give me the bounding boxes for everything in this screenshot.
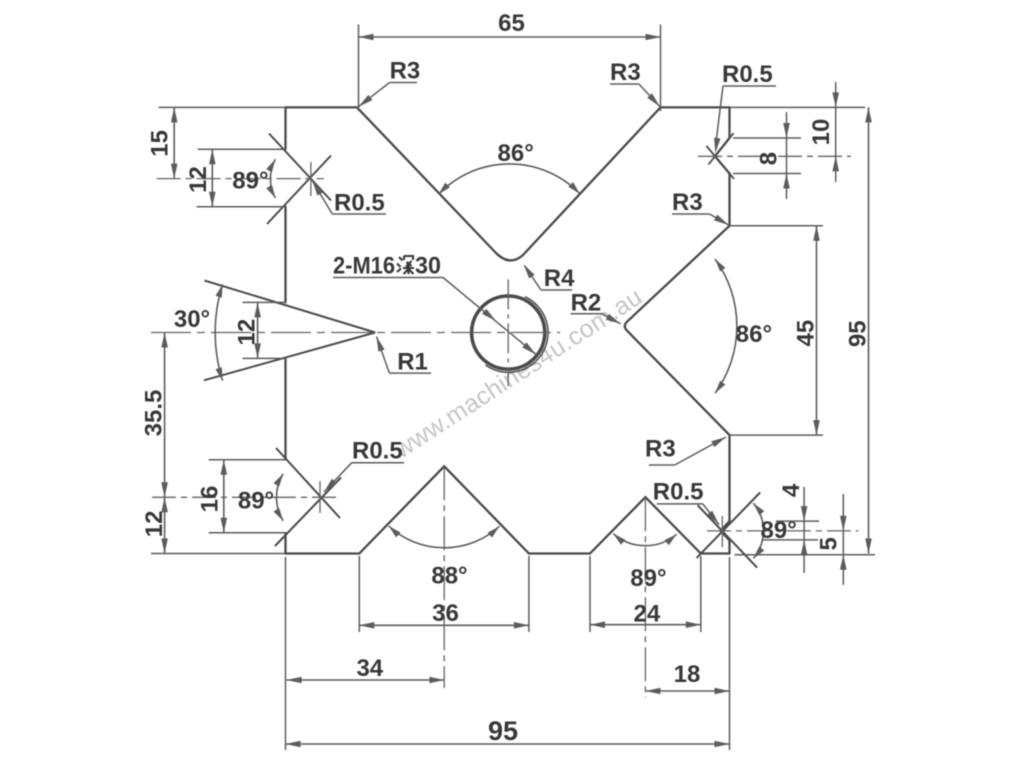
dim 10: dimension line/arrows (outside): [835, 82, 837, 182]
dim 65: extension lines: [358, 25, 360, 112]
dim 24: extension lines: [589, 556, 591, 632]
bottom edge extension left: [151, 553, 286, 555]
top-left 89 notch flank lines (overshooting): [269, 134, 331, 201]
svg-text:88°: 88°: [431, 563, 467, 590]
centerline: top-right notch horizontal: [698, 155, 851, 157]
dim 8: extension lines: [733, 137, 801, 139]
svg-text:R3: R3: [610, 59, 641, 86]
centerline: corner notch horizontal: [707, 530, 858, 532]
svg-text:86°: 86°: [498, 140, 534, 167]
dim 8: dimension line/arrows (outside): [786, 112, 788, 199]
bottom V notch 1 (36mm) flanks: [359, 466, 529, 553]
top edge right segment: [661, 106, 730, 108]
svg-text:R4: R4: [544, 265, 575, 292]
svg-text:36: 36: [432, 600, 459, 627]
angle 86 top V: arc: [439, 164, 580, 194]
svg-text:2-M16: 2-M16: [333, 253, 395, 280]
leader R0.5 top-left: [313, 181, 333, 214]
bottom edge right segment: [701, 552, 730, 554]
svg-text:R3: R3: [390, 58, 421, 85]
dim 16: dimension line/arrows: [223, 460, 225, 533]
dim 5: dimension line/arrows (outside): [842, 494, 844, 585]
svg-text:12: 12: [185, 166, 212, 193]
dim 15: extension line (top edge extended): [159, 106, 286, 108]
svg-text:R1: R1: [397, 349, 428, 376]
bottom-left 89 notch flank lines (overshooting): [276, 448, 340, 518]
svg-text:15: 15: [147, 130, 174, 157]
svg-text:89°: 89°: [238, 488, 274, 515]
right V notch flanks with R2 vertex: [625, 226, 730, 435]
right edge bottom stub: [728, 541, 730, 554]
bottom edge middle segment: [529, 552, 590, 554]
svg-text:45: 45: [792, 320, 819, 347]
svg-text:95: 95: [844, 320, 871, 347]
dim 95 right: extension line (bottom edge ext): [735, 554, 876, 556]
M16 tapped hole: outer thread arc: [486, 297, 549, 373]
top V notch flanks with R4 fillet: [357, 107, 661, 260]
svg-text:89°: 89°: [232, 168, 268, 195]
leader R2 (right V fillet): [602, 314, 621, 324]
svg-text:12: 12: [233, 319, 260, 346]
bottom edge left segment: [286, 552, 360, 554]
centerline tick: top-left notch vertex: [310, 162, 312, 196]
top-right notch flanks: [715, 138, 730, 174]
svg-text:86°: 86°: [736, 321, 772, 348]
dim 15: dimension line/arrows: [173, 107, 175, 178]
svg-text:34: 34: [356, 655, 383, 682]
svg-text:89°: 89°: [630, 565, 666, 592]
right edge upper segment: [728, 107, 730, 138]
svg-text:24: 24: [634, 601, 661, 628]
hand-drawn CJK glyph "deep": [397, 256, 414, 274]
dim 12 (30 notch): dimension line/arrows: [257, 302, 259, 358]
svg-text:R0.5: R0.5: [352, 438, 403, 465]
centerline tick: corner notch vertex: [721, 516, 723, 547]
dim 36: extension lines: [358, 556, 360, 632]
dim 12 top-left: extension lines: [198, 148, 286, 150]
svg-text:30°: 30°: [174, 306, 210, 333]
svg-text:95: 95: [488, 716, 518, 746]
dim 65: dimension line and arrows: [359, 36, 661, 38]
angle 86 right V: arc: [715, 259, 737, 393]
leader R0.5 bottom-right: [703, 504, 719, 525]
angle 89 corner notch: arc: [753, 503, 763, 558]
leader R3 right-middle: [710, 214, 729, 225]
dim 18: dimension line/arrows: [645, 690, 729, 692]
svg-text:R3: R3: [672, 189, 703, 216]
dim 12 bottom-left: dimension line/arrows: [164, 497, 166, 553]
leader R4 (top V fillet): [525, 266, 542, 291]
dim 12 (30 notch): extension lines: [243, 301, 286, 303]
top edge left segment: [286, 106, 358, 108]
centerline: bottom-left notch horizontal: [152, 496, 338, 498]
left edge bottom segment: [284, 533, 286, 554]
svg-text:35.5: 35.5: [140, 390, 167, 437]
svg-text:8: 8: [756, 152, 783, 165]
dim 16: extension lines: [209, 459, 286, 461]
svg-text:18: 18: [674, 661, 701, 688]
top-right notch flank overshoot: [709, 133, 734, 164]
dim 4: dimension line/arrows (outside): [803, 487, 805, 573]
dim 95 bottom: dimension line/arrows: [286, 743, 730, 745]
dim 95 right: dimension line/arrows: [868, 107, 870, 553]
bottom-right corner notch flanks: [721, 521, 730, 540]
leader R1 (30 notch vertex): [377, 337, 390, 374]
svg-text:65: 65: [498, 10, 525, 37]
right edge lower segment: [728, 435, 730, 521]
label 2-M16: underline and leader: [333, 277, 443, 279]
dim 24: dimension line/arrows: [590, 624, 701, 626]
dim 35.5: dimension line/arrows: [164, 333, 166, 498]
dim 18: extension line (right edge ext down): [729, 557, 731, 750]
left edge top segment: [284, 107, 286, 149]
M16 tapped hole: inner circle: [472, 296, 545, 369]
svg-text:R0.5: R0.5: [653, 479, 704, 506]
angle 89 bottom notch2: arc: [613, 534, 676, 546]
centerline: hole / 30deg notch horizontal: [151, 332, 560, 334]
centerline: bottom notch2 vertical: [644, 497, 646, 698]
dim 34: dimension line/arrows: [287, 679, 445, 681]
dim 45: extension lines: [730, 225, 824, 227]
leader R3 lower-right: [675, 437, 726, 465]
svg-text:5: 5: [815, 537, 842, 550]
angle 88 bottom notch1: arc: [389, 526, 500, 548]
svg-text:R0.5: R0.5: [334, 190, 385, 217]
svg-text:R2: R2: [571, 290, 602, 317]
left edge middle-high segment: [284, 207, 286, 303]
dim 4: extension lines: [776, 520, 819, 522]
dim 34: extension line (left edge ext down): [285, 557, 287, 750]
leader R3 top-right: [639, 84, 660, 107]
centerline: hole vertical: [507, 279, 509, 386]
svg-text:R0.5: R0.5: [722, 61, 773, 88]
leader R0.5 top-right: [716, 86, 723, 140]
svg-text:R3: R3: [645, 436, 676, 463]
dim 12 top-left: dimension line/arrows: [211, 149, 213, 206]
bottom-right corner notch flank lines (overshooting): [698, 505, 758, 568]
bottom V notch 2 (24mm) flanks: [590, 497, 701, 553]
svg-text:30: 30: [415, 253, 441, 280]
dim 36: dimension line/arrows: [359, 624, 529, 626]
angle 30: arc: [215, 284, 222, 380]
svg-text:16: 16: [197, 486, 224, 513]
watermark www.machines4u.com.au: [388, 283, 647, 465]
left edge middle-low segment: [284, 358, 286, 459]
leader R3 top-left: [359, 83, 390, 107]
svg-text:10: 10: [808, 119, 835, 146]
leader R0.5 bottom-left: [324, 463, 352, 492]
svg-text:12: 12: [141, 511, 168, 538]
dim 10: extension line (top edge ext right): [730, 106, 866, 108]
dim 45: dimension line/arrows: [816, 226, 818, 435]
centerline tick: bottom-left notch vertex: [319, 481, 321, 513]
centerline: top-left notch horizontal: [157, 178, 324, 180]
angle 89 bottom-left: arc: [276, 474, 283, 521]
right edge segment to right-V shoulder: [728, 174, 730, 226]
die block outline: [286, 107, 730, 553]
left 30 notch flank lines (overshooting): [205, 281, 376, 333]
centerline: bottom notch1 vertical: [443, 466, 445, 688]
angle 89 top-left: arc: [270, 159, 275, 198]
svg-text:4: 4: [778, 483, 805, 497]
